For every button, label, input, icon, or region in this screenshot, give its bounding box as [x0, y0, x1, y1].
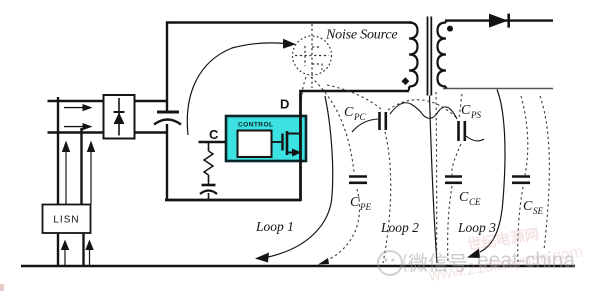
svg-text:PE: PE	[359, 202, 371, 212]
svg-text:C: C	[459, 190, 469, 205]
svg-text:C: C	[350, 195, 360, 210]
svg-text:C: C	[209, 127, 219, 142]
svg-text:D: D	[280, 97, 289, 112]
svg-text:PC: PC	[353, 112, 366, 122]
svg-text:C: C	[461, 103, 471, 118]
svg-text:Loop 3: Loop 3	[457, 220, 496, 235]
svg-text:SE: SE	[533, 206, 544, 216]
svg-text:Noise Source: Noise Source	[325, 28, 397, 43]
svg-text:C: C	[344, 105, 354, 120]
svg-text:CE: CE	[469, 197, 481, 207]
svg-text:Loop 2: Loop 2	[380, 220, 419, 235]
svg-text:C: C	[523, 199, 533, 214]
svg-text:CONTROL: CONTROL	[238, 122, 273, 129]
svg-text:LISN: LISN	[53, 215, 79, 226]
svg-text:Loop 1: Loop 1	[255, 219, 294, 234]
svg-text:PS: PS	[470, 110, 481, 120]
